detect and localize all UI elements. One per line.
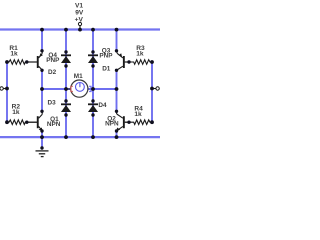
svg-text:NPN: NPN (47, 121, 61, 128)
svg-text:1k: 1k (134, 111, 142, 118)
node right col input (150, 87, 154, 91)
node Q2 emitter pin (115, 129, 118, 132)
node Q2 collector pin (115, 110, 118, 113)
node right col R3 (150, 60, 154, 64)
node top rail D1 (91, 28, 95, 32)
node motor D1 (91, 87, 95, 91)
motor M1 (66, 80, 93, 97)
diode D2 (61, 55, 71, 63)
node motor left branch (40, 87, 44, 91)
wire right input column (151, 62, 153, 122)
node left col R2 (5, 120, 9, 124)
wire D4 column (92, 89, 94, 137)
node motor right branch (115, 87, 119, 91)
transistor Q1 (27, 112, 43, 132)
node ground (40, 146, 43, 149)
wire Q3 emitter to rail (116, 30, 118, 51)
wire Q3 collector to Q2 collector (116, 70, 118, 112)
resistor R1 (7, 60, 37, 65)
node R1 base (25, 60, 28, 63)
node Q3 emitter pin (115, 49, 118, 52)
wire D3 column (65, 89, 67, 137)
ground (36, 151, 49, 157)
node Q1 collector pin (40, 110, 43, 113)
svg-text:D2: D2 (48, 69, 57, 76)
wire D1 column (92, 30, 94, 89)
transistor Q4 (27, 51, 43, 70)
wire top +V rail (0, 28, 160, 30)
junction dots (5, 28, 154, 150)
node D3 anode (64, 113, 67, 116)
svg-text:M1: M1 (74, 73, 83, 80)
svg-text:1k: 1k (10, 50, 18, 57)
wire ground stub (41, 137, 43, 148)
node Q4 collector pin (40, 69, 43, 72)
node D2 cathode (64, 50, 67, 53)
node top rail D2 (64, 28, 68, 32)
transistor Q3 (117, 51, 130, 70)
node left col R1 (5, 60, 9, 64)
node D3 cathode (64, 99, 67, 102)
transistor Q2 (116, 112, 129, 132)
wire bottom ground rail (0, 136, 160, 138)
node top rail Q3 (115, 28, 119, 32)
node top rail Q4 (40, 28, 44, 32)
resistor R3 (125, 60, 152, 65)
diode D1 (88, 55, 98, 63)
svg-text:D4: D4 (98, 102, 107, 109)
wire left input column (6, 62, 8, 122)
node R2 base (25, 121, 28, 124)
svg-text:NPN: NPN (105, 120, 119, 127)
svg-text:1k: 1k (136, 51, 144, 58)
node Q3 collector pin (115, 69, 118, 72)
power terminal V1 (78, 22, 81, 29)
node bottom rail D3 (64, 135, 68, 139)
svg-text:PNP: PNP (46, 57, 60, 64)
wire Q4 emitter to rail (41, 30, 43, 51)
svg-text:1k: 1k (12, 109, 20, 116)
wire Q4 collector to motor node (41, 70, 43, 112)
diode D3 (61, 104, 71, 112)
node D2 anode (64, 64, 67, 67)
node D1 cathode (91, 50, 94, 53)
node R4 base (127, 121, 130, 124)
svg-text:+V: +V (75, 17, 84, 24)
node D4 cathode (91, 99, 94, 102)
diode D4 (88, 104, 98, 112)
node motor D2 (64, 87, 68, 91)
node Q4 emitter pin (40, 49, 43, 52)
node Q1 emitter pin (40, 129, 43, 132)
node bottom rail Q2 (115, 135, 119, 139)
resistor R4 (125, 120, 152, 125)
wire Q2 emitter to rail (116, 131, 118, 137)
node right col R4 (150, 120, 154, 124)
node bottom rail Q1 (40, 135, 44, 139)
node left col input (5, 87, 9, 91)
svg-text:D1: D1 (102, 66, 111, 73)
wire Q1 emitter to rail (41, 131, 43, 137)
wire motor mid rail (42, 88, 117, 90)
node D4 anode (91, 113, 94, 116)
node top rail V1 (78, 28, 82, 32)
svg-text:D3: D3 (48, 99, 57, 106)
wire D2 column (65, 30, 67, 89)
right input terminal (152, 87, 159, 90)
resistor R2 (7, 120, 37, 125)
node bottom rail D4 (91, 135, 95, 139)
node D1 anode (91, 64, 94, 67)
left input terminal (0, 87, 7, 90)
node R3 base (127, 60, 130, 63)
svg-text:PNP: PNP (99, 52, 113, 59)
